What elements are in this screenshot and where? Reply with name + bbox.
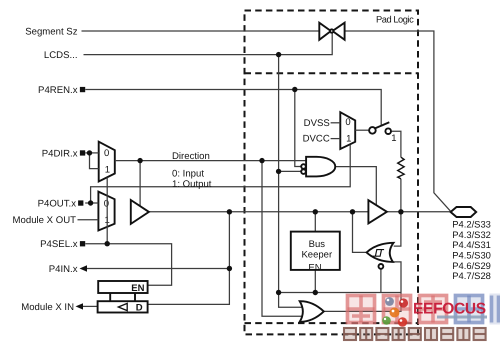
watermark big glyph blocks bbox=[346, 294, 500, 325]
wire direction to buffer enable bbox=[139, 161, 141, 206]
switch S1 right contact bbox=[385, 128, 391, 134]
left side labels bbox=[13, 26, 78, 312]
node P4IN tap bbox=[227, 266, 232, 271]
svg-text:0: 0 bbox=[104, 148, 109, 159]
latch clock triangle bbox=[118, 303, 127, 310]
wire P4DIR.x bbox=[85, 152, 98, 154]
wire direction branch to OR gate bbox=[262, 161, 303, 317]
switch S1 lever bbox=[375, 122, 389, 128]
node direction OR branch bbox=[259, 158, 264, 163]
svg-text:P4SEL.x: P4SEL.x bbox=[40, 239, 78, 250]
pad hexagon bbox=[451, 207, 477, 217]
node LCDS branch bbox=[276, 52, 281, 57]
wire Module X IN bbox=[83, 305, 98, 307]
wire Module X OUT bbox=[78, 219, 99, 221]
node driver input feedback bbox=[227, 209, 232, 214]
svg-text:Pad Logic: Pad Logic bbox=[376, 14, 414, 24]
terminal P4REN.x bbox=[80, 87, 85, 92]
bubble gate input 2 bbox=[301, 164, 306, 169]
svg-text:DVCC: DVCC bbox=[303, 134, 330, 145]
wire P4OUT branch to REN mux select bbox=[91, 145, 351, 203]
wire input feedback to latch D bbox=[148, 212, 230, 305]
svg-text:Module X OUT: Module X OUT bbox=[13, 215, 77, 226]
inner dashed box bottom edge bbox=[245, 322, 419, 324]
wire DVSS bbox=[331, 122, 341, 124]
svg-text:Segment Sz: Segment Sz bbox=[25, 26, 77, 37]
wire P4IN.x bbox=[86, 268, 229, 270]
wire P4REN.x bbox=[85, 90, 381, 126]
analog switch bowtie right triangle bbox=[333, 23, 345, 40]
mux U3 DVSS/DVCC pull resistor mux bbox=[340, 112, 355, 149]
bubble gate input 3 bbox=[301, 169, 306, 174]
wire pad net bbox=[387, 211, 451, 213]
wire Segment Sz input bbox=[82, 30, 320, 32]
node P4DIR branch bbox=[87, 150, 92, 155]
analog switch bowtie left triangle bbox=[319, 23, 331, 40]
mux U1 P4DIR direction mux bbox=[99, 142, 115, 182]
node direction buffer enable bbox=[137, 158, 142, 163]
wire nand output to driver enable bbox=[335, 167, 376, 206]
bubble schmitt enable bbox=[379, 264, 384, 269]
wire Direction net bbox=[115, 160, 306, 162]
svg-text:P4DIR.x: P4DIR.x bbox=[42, 148, 78, 159]
wire DVCC bbox=[331, 138, 341, 140]
node gate input 3 bbox=[276, 169, 281, 174]
svg-text:P4.7/S28: P4.7/S28 bbox=[452, 270, 491, 281]
wire pad to schmitt input bbox=[394, 212, 401, 246]
switch S1 left contact bbox=[369, 127, 376, 134]
wire OR output to schmitt bbox=[324, 262, 401, 312]
svg-text:Direction: Direction bbox=[172, 151, 210, 162]
latch enable legs bbox=[109, 293, 111, 301]
buffer U4 output mux buffer bbox=[131, 200, 149, 224]
node P4SEL branch bbox=[105, 241, 110, 246]
wire resistor to switch bbox=[391, 131, 401, 157]
svg-text:EEFOCUS: EEFOCUS bbox=[413, 301, 486, 318]
latch D box bbox=[98, 301, 148, 312]
wire bus keeper top bbox=[314, 212, 316, 232]
arrow P4IN.x bbox=[80, 265, 88, 271]
wire LCDS control bbox=[84, 33, 333, 55]
wire schmitt enable bubble bbox=[380, 269, 382, 293]
watermark EEFOCUS logo balls bbox=[382, 297, 408, 327]
bowtie control circle bbox=[330, 29, 333, 32]
node schmitt out tap bbox=[350, 209, 355, 214]
wire P4SEL to mux selects bbox=[106, 177, 108, 243]
svg-text:1: 1 bbox=[105, 164, 110, 175]
terminal P4SEL.x bbox=[80, 241, 85, 246]
arrow Module X IN bbox=[76, 303, 84, 309]
wire P4DIR loop to input 1 bbox=[90, 153, 99, 169]
wire enable net bbox=[279, 292, 401, 294]
svg-text:0: 0 bbox=[345, 117, 350, 128]
wire driver input net bbox=[149, 211, 369, 213]
bus keeper block bbox=[291, 232, 340, 270]
svg-text:P4IN.x: P4IN.x bbox=[49, 264, 78, 275]
terminal P4DIR.x bbox=[80, 150, 85, 155]
svg-text:Keeper: Keeper bbox=[301, 249, 332, 260]
svg-text:LCDS...: LCDS... bbox=[44, 50, 78, 61]
latch enable bar bbox=[98, 281, 147, 293]
mux U2 P4OUT output mux bbox=[98, 192, 114, 231]
node bus keeper tap bbox=[313, 209, 318, 214]
inner dashed box top edge bbox=[245, 72, 419, 74]
wire P4REN branch to gate bbox=[295, 90, 301, 167]
svg-text:DVSS: DVSS bbox=[304, 118, 330, 129]
gate U6 AND with inverted inputs bbox=[306, 157, 335, 177]
hysteresis symbol bbox=[372, 250, 384, 257]
wire mux to switch bbox=[355, 129, 369, 131]
svg-text:1: 1 bbox=[391, 133, 396, 144]
svg-text:0: 0 bbox=[104, 199, 109, 210]
resistor R1 pullup bbox=[398, 157, 404, 179]
gate U8 schmitt trigger input buffer bbox=[367, 243, 394, 262]
watermark bottom slogan blocks bbox=[344, 328, 486, 340]
svg-text:1: Output: 1: Output bbox=[172, 179, 212, 190]
svg-text:EN: EN bbox=[308, 263, 321, 274]
svg-text:P4REN.x: P4REN.x bbox=[38, 85, 78, 96]
wire bus keeper enable bbox=[314, 270, 316, 293]
svg-text:Module X IN: Module X IN bbox=[21, 302, 74, 313]
wire segment to pad bbox=[345, 31, 451, 211]
svg-text:P4OUT.x: P4OUT.x bbox=[38, 198, 77, 209]
labels DVSS DVCC bbox=[303, 118, 330, 145]
wire pullup resistor bottom bbox=[400, 179, 402, 212]
svg-text:EN: EN bbox=[131, 283, 144, 294]
wire P4OUT.x bbox=[85, 202, 98, 204]
terminal squares bbox=[78, 87, 85, 247]
wire P4SEL.x to latch enable bbox=[85, 244, 171, 286]
wire gate input 3 stub bbox=[279, 170, 301, 172]
svg-text:D: D bbox=[136, 302, 143, 313]
node bus keeper enable bbox=[313, 290, 318, 295]
gate U7 OR bbox=[300, 301, 324, 322]
buffer U5 pad driver bbox=[368, 200, 387, 223]
wire LCDS branch down bbox=[279, 55, 303, 308]
node enable net bbox=[276, 290, 281, 295]
wire schmitt output bbox=[353, 212, 367, 253]
node pad tap bbox=[398, 209, 403, 214]
direction legend bbox=[172, 151, 212, 190]
svg-text:1: 1 bbox=[346, 133, 351, 144]
pad pin labels bbox=[452, 219, 491, 282]
terminal P4OUT.x bbox=[78, 200, 83, 205]
node P4REN branch bbox=[292, 87, 297, 92]
outer dashed box Pad Logic bbox=[245, 11, 419, 335]
svg-text:Bus: Bus bbox=[309, 239, 326, 250]
node P4OUT branch bbox=[88, 200, 93, 205]
